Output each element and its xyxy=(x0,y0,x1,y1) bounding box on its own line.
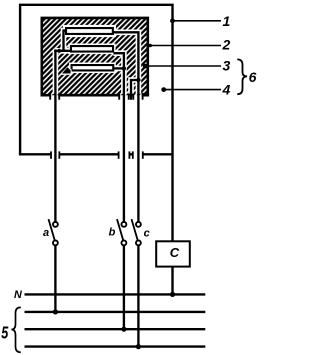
svg-text:b: b xyxy=(109,226,116,238)
svg-text:C: C xyxy=(170,245,180,260)
svg-text:N: N xyxy=(14,289,22,301)
svg-text:1: 1 xyxy=(223,13,231,29)
svg-text:4: 4 xyxy=(222,81,231,97)
svg-text:a: a xyxy=(43,227,49,239)
svg-text:3: 3 xyxy=(223,57,231,73)
svg-text:5: 5 xyxy=(1,323,8,343)
svg-text:2: 2 xyxy=(222,37,231,53)
svg-text:6: 6 xyxy=(249,69,257,85)
svg-text:c: c xyxy=(144,227,150,239)
